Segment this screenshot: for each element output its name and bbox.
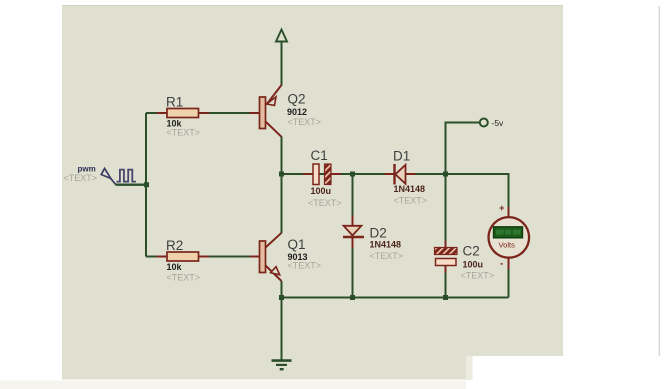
ground bbox=[272, 298, 292, 370]
generator pwm probe symbol bbox=[101, 168, 116, 184]
svg-text:<TEXT>: <TEXT> bbox=[167, 127, 201, 137]
svg-text:<TEXT>: <TEXT> bbox=[370, 251, 404, 261]
wire: top rail to voltmeter bbox=[282, 174, 509, 207]
power terminal arrow (top) bbox=[276, 30, 287, 42]
transistor Q2 (9012 PNP) bbox=[250, 85, 282, 137]
svg-text:<TEXT>: <TEXT> bbox=[394, 196, 428, 206]
node: junction D2 top bbox=[350, 172, 355, 177]
wire: C2 branch vertical bbox=[445, 174, 447, 241]
diode D2 (1N4148) bbox=[343, 216, 364, 249]
svg-text:+: + bbox=[499, 203, 505, 214]
svg-text:C2: C2 bbox=[463, 244, 480, 259]
svg-text:10k: 10k bbox=[167, 262, 183, 272]
wire: pwm stub bbox=[116, 183, 147, 185]
svg-text:-5v: -5v bbox=[492, 118, 505, 128]
svg-text:<TEXT>: <TEXT> bbox=[167, 273, 201, 283]
svg-text:1N4148: 1N4148 bbox=[370, 240, 402, 250]
svg-text:Q2: Q2 bbox=[288, 92, 306, 107]
svg-text:100u: 100u bbox=[463, 259, 484, 269]
node: junction C2 top rail bbox=[443, 172, 448, 177]
node: junction Q1 emitter / ground bbox=[279, 295, 284, 300]
resistor R1 bbox=[157, 109, 210, 118]
wire: D2 branch vertical bbox=[352, 174, 354, 216]
wire: R2 base row bbox=[146, 256, 251, 258]
resistor R2 bbox=[157, 252, 210, 261]
svg-text:R2: R2 bbox=[166, 238, 183, 253]
wire: -5v branch bbox=[446, 123, 480, 175]
svg-text:<TEXT>: <TEXT> bbox=[288, 261, 322, 271]
svg-text:D1: D1 bbox=[393, 149, 410, 164]
svg-text:1N4148: 1N4148 bbox=[394, 184, 426, 194]
svg-text:D2: D2 bbox=[370, 225, 387, 240]
node: pwm junction on bus bbox=[144, 182, 149, 187]
wire: Q2 collector / Q1 collector vertical bbox=[281, 137, 283, 234]
svg-text:<TEXT>: <TEXT> bbox=[288, 117, 322, 127]
wire: voltmeter bottom lead bbox=[508, 269, 510, 298]
svg-text:<TEXT>: <TEXT> bbox=[461, 271, 495, 281]
wire: R1 base row bbox=[146, 112, 251, 114]
wire: power arrow to Q2 emitter bbox=[281, 42, 283, 86]
svg-text:Q1: Q1 bbox=[288, 237, 306, 252]
svg-text:100u: 100u bbox=[311, 186, 332, 196]
svg-text:pwm: pwm bbox=[78, 164, 96, 173]
capacitor C2 (100u polarized) bbox=[435, 241, 458, 273]
svg-text:<TEXT>: <TEXT> bbox=[64, 173, 98, 183]
node: junction at collector rail bbox=[279, 172, 284, 177]
terminal -5v circle bbox=[480, 119, 488, 127]
svg-text:9012: 9012 bbox=[287, 107, 307, 117]
svg-text:R1: R1 bbox=[166, 95, 183, 110]
transistor Q1 (9013 NPN) bbox=[250, 233, 282, 281]
wire: bottom rail bbox=[282, 297, 509, 299]
capacitor C1 (100u polarized) bbox=[303, 164, 341, 185]
svg-text:<TEXT>: <TEXT> bbox=[308, 198, 342, 208]
node: junction C2 bottom bbox=[443, 295, 448, 300]
svg-text:-: - bbox=[500, 259, 503, 270]
voltmeter U1 (Volts) bbox=[489, 207, 530, 269]
pwm pulse waveform glyph bbox=[117, 170, 136, 182]
wire: Q1 emitter to rail bbox=[281, 281, 283, 298]
diode D1 (1N4148) bbox=[385, 164, 416, 185]
svg-text:Volts: Volts bbox=[499, 241, 516, 250]
node: junction D2 bottom bbox=[350, 295, 355, 300]
wire: left vertical bus bbox=[145, 113, 147, 257]
svg-text:C1: C1 bbox=[311, 148, 328, 163]
